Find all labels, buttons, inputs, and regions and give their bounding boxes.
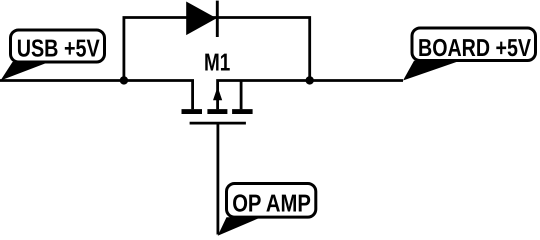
node junction left: [120, 76, 128, 84]
transistor M1 gate bar: [190, 122, 246, 125]
callout tail USB: [1, 62, 50, 81]
wire gate down to op amp: [216, 123, 219, 234]
wire right stub of mosfet: [240, 81, 243, 110]
wire main horizontal USB to BOARD tail: [0, 81, 193, 110]
diode D1 triangle: [186, 2, 216, 36]
diode D1 cathode bar: [216, 1, 219, 37]
svg-text:USB +5V: USB +5V: [17, 36, 100, 63]
callout box BOARD +5V: [412, 28, 536, 61]
transistor M1 bulk arrow: [213, 87, 222, 100]
callout tail OP AMP: [218, 217, 261, 236]
svg-text:OP AMP: OP AMP: [232, 191, 311, 218]
svg-text:BOARD +5V: BOARD +5V: [418, 35, 531, 62]
callout box USB +5V: [11, 30, 105, 62]
transistor M1 contact bars: [182, 109, 203, 114]
wire source/bulk to right: [218, 81, 403, 110]
callout box OP AMP: [227, 184, 316, 218]
wire left diode branch: [124, 18, 310, 81]
node junction right: [306, 76, 314, 84]
callout tail BOARD: [403, 61, 460, 81]
svg-text:M1: M1: [204, 49, 230, 76]
